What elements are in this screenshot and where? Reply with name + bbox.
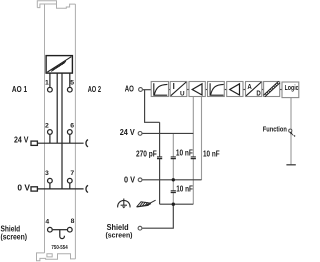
svg-text:AO: AO	[125, 85, 135, 94]
svg-text:(screen): (screen)	[106, 231, 133, 240]
svg-text:I: I	[173, 82, 175, 91]
svg-text:6: 6	[70, 122, 74, 129]
svg-text:4: 4	[45, 218, 49, 225]
svg-text:10 nF: 10 nF	[176, 184, 193, 193]
svg-text:1: 1	[45, 79, 49, 86]
svg-text:2: 2	[45, 122, 49, 129]
svg-text:7: 7	[70, 170, 74, 177]
svg-text:270 pF: 270 pF	[136, 149, 157, 158]
svg-text:10 nF: 10 nF	[203, 149, 220, 158]
svg-text:750-554: 750-554	[51, 245, 67, 251]
svg-text:5: 5	[70, 79, 74, 86]
svg-text:(screen): (screen)	[1, 232, 28, 241]
svg-text:3: 3	[45, 170, 49, 177]
svg-text:Logic: Logic	[285, 83, 299, 92]
svg-text:10 nF: 10 nF	[176, 149, 193, 158]
svg-text:AO 1: AO 1	[12, 85, 28, 94]
svg-text:U: U	[180, 90, 185, 97]
svg-text:24 V: 24 V	[120, 128, 135, 137]
svg-text:8: 8	[71, 218, 75, 225]
svg-text:0 V: 0 V	[124, 175, 135, 184]
svg-text:Function: Function	[263, 125, 287, 134]
svg-text:D: D	[256, 89, 260, 98]
svg-text:0 V: 0 V	[17, 183, 30, 192]
svg-text:AO 2: AO 2	[88, 85, 102, 94]
svg-text:A: A	[247, 82, 251, 91]
svg-text:24 V: 24 V	[14, 136, 29, 145]
